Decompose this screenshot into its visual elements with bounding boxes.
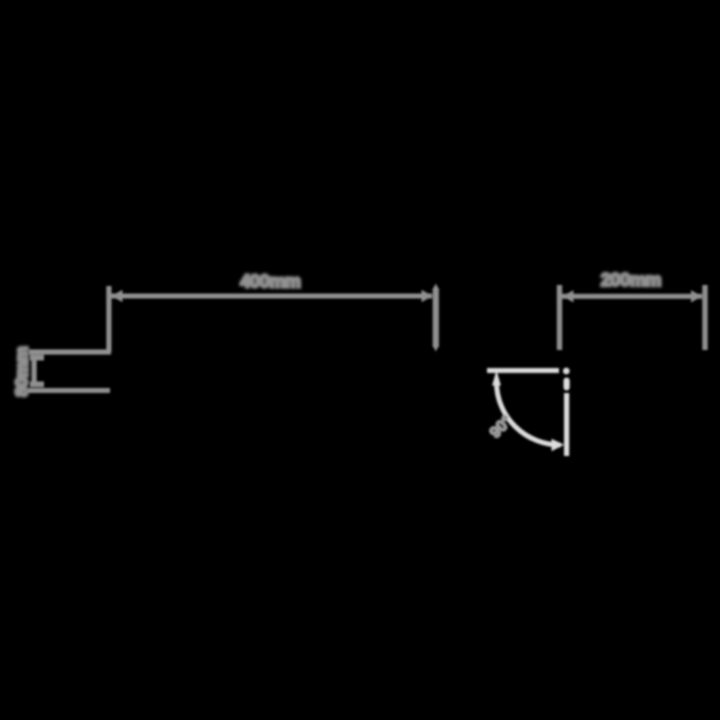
svg-text:200mm: 200mm — [601, 270, 662, 290]
svg-text:80mm: 80mm — [12, 346, 32, 397]
svg-text:400mm: 400mm — [240, 272, 301, 292]
svg-text:90°: 90° — [487, 413, 516, 442]
